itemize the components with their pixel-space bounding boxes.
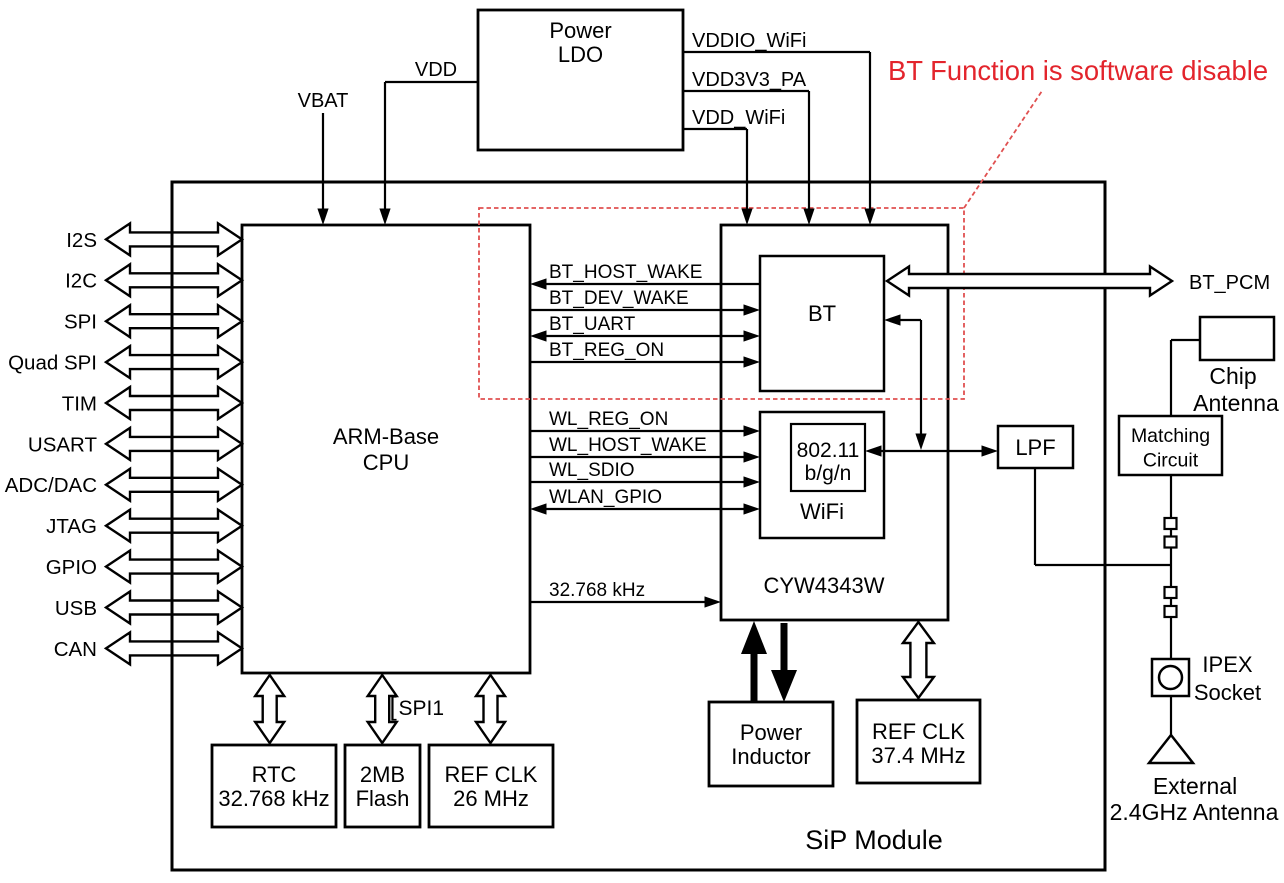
interface arrow Quad SPI [106, 346, 242, 378]
arrow CPU-REF CLK 26 [476, 675, 505, 743]
svg-text:Circuit: Circuit [1143, 450, 1199, 472]
arrow BT_PCM bus [887, 267, 1172, 296]
svg-text:ARM-Base: ARM-Base [333, 424, 439, 449]
wire WL_REG_ON [530, 430, 756, 432]
2MB Flash box [345, 745, 420, 827]
svg-text:WL_REG_ON: WL_REG_ON [549, 409, 668, 430]
svg-text:Power: Power [549, 18, 611, 43]
Power LDO box [478, 10, 683, 150]
svg-text:I2C: I2C [65, 270, 97, 293]
svg-text:Socket: Socket [1194, 680, 1261, 705]
SiP left border over arrows [171, 182, 174, 870]
IPEX socket [1152, 659, 1189, 696]
wire chip antenna feed [1171, 339, 1200, 341]
interface arrow SPI [106, 305, 242, 337]
wire LPF to antenna feed [1034, 468, 1036, 565]
Chip Antenna box [1200, 317, 1274, 360]
interface arrow CAN [106, 632, 242, 664]
interface arrow I2C [106, 264, 242, 296]
wire WLAN RF to LPF [869, 450, 994, 452]
svg-text:BT_DEV_WAKE: BT_DEV_WAKE [549, 288, 689, 309]
svg-text:BT_REG_ON: BT_REG_ON [549, 340, 664, 361]
svg-text:VDD3V3_PA: VDD3V3_PA [692, 69, 807, 91]
interface arrow USB [106, 592, 242, 624]
wire VDD3V3_PA [683, 90, 809, 92]
wire VDD_WiFi [683, 128, 747, 130]
svg-text:SiP Module: SiP Module [805, 825, 943, 855]
wire VDDIO_WiFi [683, 51, 870, 53]
svg-text:SPI1: SPI1 [399, 697, 445, 720]
interface arrow JTAG [106, 510, 242, 542]
svg-text:CYW4343W: CYW4343W [763, 573, 884, 598]
wire 32.768 kHz clock [530, 601, 717, 603]
svg-text:BT: BT [808, 301, 836, 326]
svg-text:LDO: LDO [558, 42, 603, 67]
WiFi block box [760, 412, 884, 538]
svg-text:External: External [1153, 773, 1237, 799]
svg-text:Power: Power [740, 720, 802, 745]
wire IPEX to antenna [1170, 696, 1172, 737]
svg-text:WL_HOST_WAKE: WL_HOST_WAKE [549, 435, 707, 456]
thick arrow inductor down [781, 623, 788, 673]
wire VDD [385, 81, 479, 83]
802.11 b/g/n inner box [791, 424, 865, 491]
svg-text:USART: USART [28, 433, 98, 456]
svg-text:[: [ [390, 691, 398, 721]
BT block box [760, 256, 884, 391]
RTC box [212, 745, 336, 827]
interface arrow I2S [106, 223, 242, 255]
svg-text:WiFi: WiFi [800, 499, 844, 524]
wire WL_SDIO [530, 481, 756, 483]
svg-text:VDD: VDD [415, 59, 457, 81]
wire BT RF feed [888, 319, 921, 321]
svg-text:Quad SPI: Quad SPI [8, 352, 97, 375]
svg-text:Flash: Flash [356, 786, 410, 811]
svg-text:32.768 kHz: 32.768 kHz [549, 580, 645, 601]
wire matching to IPEX [1170, 475, 1172, 659]
svg-text:2MB: 2MB [360, 762, 405, 787]
component pad 3 [1165, 587, 1177, 598]
svg-text:SPI: SPI [64, 311, 97, 334]
thick arrow inductor up [751, 650, 758, 703]
svg-text:Inductor: Inductor [731, 744, 811, 769]
external antenna symbol [1149, 735, 1193, 763]
wire BT_HOST_WAKE [534, 283, 760, 285]
LPF box [998, 426, 1073, 468]
svg-text:GPIO: GPIO [46, 556, 97, 579]
wire BT_DEV_WAKE [530, 309, 756, 311]
Matching Circuit box [1119, 416, 1222, 475]
Power Inductor box [709, 702, 833, 786]
svg-text:Chip: Chip [1209, 363, 1256, 389]
svg-text:b/g/n: b/g/n [805, 462, 852, 485]
svg-text:BT_HOST_WAKE: BT_HOST_WAKE [549, 262, 702, 283]
red dashed BT-disable region [479, 208, 964, 399]
red dashed leader line [964, 91, 1042, 208]
svg-text:I2S: I2S [66, 229, 97, 252]
REF CLK 26 MHz box [429, 745, 553, 827]
svg-text:USB: USB [55, 597, 97, 620]
svg-text:LPF: LPF [1015, 435, 1055, 460]
wire BT_UART [534, 335, 756, 337]
svg-text:BT Function is software disabl: BT Function is software disable [888, 55, 1268, 86]
svg-text:VBAT: VBAT [298, 90, 349, 112]
svg-text:802.11: 802.11 [797, 439, 860, 462]
wire WL_HOST_WAKE [530, 456, 756, 458]
svg-text:JTAG: JTAG [46, 515, 97, 538]
svg-text:VDD_WiFi: VDD_WiFi [692, 107, 785, 129]
svg-text:CPU: CPU [363, 450, 409, 475]
svg-text:REF CLK: REF CLK [445, 762, 538, 787]
svg-text:32.768 kHz: 32.768 kHz [218, 786, 329, 811]
interface arrow TIM [106, 387, 242, 419]
interface arrow ADC/DAC [106, 469, 242, 501]
svg-text:ADC/DAC: ADC/DAC [5, 474, 97, 497]
svg-text:37.4 MHz: 37.4 MHz [871, 743, 965, 768]
arrow CYW-REF CLK 37.4 [903, 622, 934, 698]
svg-text:CAN: CAN [54, 638, 97, 661]
svg-text:WLAN_GPIO: WLAN_GPIO [549, 487, 662, 508]
svg-text:RTC: RTC [252, 762, 297, 787]
SiP Module outer box [172, 182, 1105, 870]
svg-text:BT_PCM: BT_PCM [1189, 272, 1270, 294]
svg-text:REF CLK: REF CLK [872, 719, 965, 744]
svg-text:TIM: TIM [62, 392, 97, 415]
svg-text:BT_UART: BT_UART [549, 314, 636, 335]
wire BT_REG_ON [530, 361, 756, 363]
svg-text:2.4GHz Antenna: 2.4GHz Antenna [1110, 799, 1279, 825]
CYW4343W box [721, 225, 948, 620]
wire VBAT [322, 113, 324, 220]
wire WLAN_GPIO [534, 508, 756, 510]
component pad 1 [1165, 518, 1177, 529]
interface arrow GPIO [106, 551, 242, 583]
REF CLK 37.4 MHz box [857, 700, 980, 783]
svg-text:Matching: Matching [1131, 425, 1210, 447]
svg-text:WL_SDIO: WL_SDIO [549, 460, 635, 481]
interface arrow USART [106, 428, 242, 460]
component pad 4 [1165, 606, 1177, 617]
arrow CPU-Flash (SPI1) [368, 675, 397, 743]
svg-text:Antenna: Antenna [1193, 390, 1279, 416]
arrow CPU-RTC [255, 675, 284, 743]
component pad 2 [1165, 537, 1177, 548]
svg-text:VDDIO_WiFi: VDDIO_WiFi [692, 30, 806, 52]
svg-text:26 MHz: 26 MHz [453, 786, 529, 811]
ARM-Base CPU box [242, 225, 530, 673]
svg-text:IPEX: IPEX [1202, 652, 1252, 677]
